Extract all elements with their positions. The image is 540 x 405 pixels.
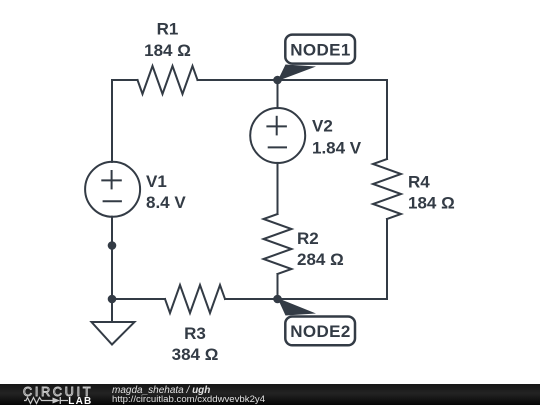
label R1 (157, 20, 179, 39)
svg-text:R2: R2 (297, 229, 319, 248)
wire middle top segment (277, 80, 279, 108)
svg-text:184 Ω: 184 Ω (144, 41, 191, 60)
label R4 value 184 ohm (408, 194, 455, 213)
svg-text:NODE2: NODE2 (290, 322, 351, 341)
svg-text:284 Ω: 284 Ω (297, 250, 344, 269)
label V2 value 1.84 V (312, 139, 362, 158)
svg-text:V1: V1 (146, 172, 167, 191)
resistor R3 (165, 285, 225, 313)
resistor R4 (373, 159, 401, 219)
label R2 (297, 229, 319, 248)
svg-text:V2: V2 (312, 117, 333, 136)
junction dot left wire (108, 241, 117, 250)
svg-text:R1: R1 (157, 20, 179, 39)
svg-text:8.4 V: 8.4 V (146, 193, 186, 212)
footer bar (0, 384, 540, 405)
svg-text:384 Ω: 384 Ω (172, 345, 219, 364)
node NODE2 (273, 295, 355, 346)
footer credit line 2 (112, 394, 265, 405)
wire middle segment V2 to R2 (277, 163, 279, 214)
node NODE1 (273, 35, 355, 85)
svg-text:NODE1: NODE1 (290, 41, 351, 60)
label R3 (184, 324, 206, 343)
footer credit line 1 (112, 385, 210, 396)
label V2 (312, 117, 333, 136)
wire right lower segment (386, 219, 388, 299)
label R4 (408, 173, 430, 192)
resistor R2 (264, 214, 292, 274)
wire left lower segment (111, 217, 113, 299)
wire bottom right segment (278, 298, 388, 300)
wire top middle segment (198, 79, 278, 81)
label R1 value 184 ohm (144, 41, 191, 60)
svg-text:LAB: LAB (68, 396, 92, 405)
label V1 value 8.4 V (146, 193, 186, 212)
wire top left segment (112, 79, 138, 81)
voltage source V1 (85, 162, 140, 217)
label V1 (146, 172, 167, 191)
svg-text:R3: R3 (184, 324, 206, 343)
wire bottom middle segment (225, 298, 278, 300)
label R2 value 284 ohm (297, 250, 344, 269)
label R3 value 384 ohm (172, 345, 219, 364)
wire middle bottom segment (277, 274, 279, 299)
wire top right segment (278, 79, 388, 81)
wire left upper segment (111, 80, 113, 162)
ground (92, 299, 135, 345)
voltage source V2 (250, 108, 305, 163)
CircuitLab logo (0, 384, 100, 405)
svg-text:R4: R4 (408, 173, 430, 192)
resistor R1 (138, 66, 198, 94)
wire right upper segment (386, 80, 388, 159)
wire bottom left segment (112, 298, 165, 300)
svg-text:184 Ω: 184 Ω (408, 194, 455, 213)
junction dot ground node (108, 295, 117, 304)
svg-text:1.84 V: 1.84 V (312, 139, 362, 158)
